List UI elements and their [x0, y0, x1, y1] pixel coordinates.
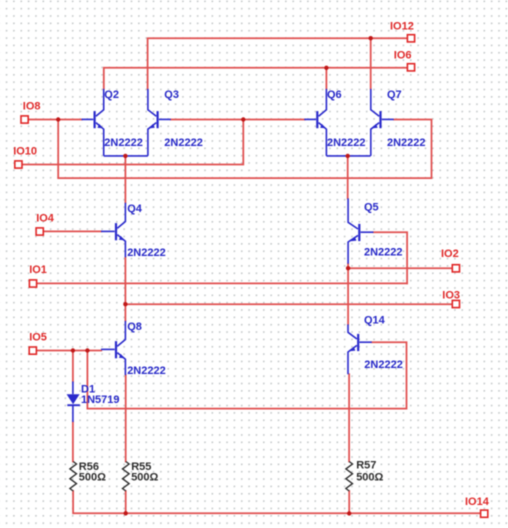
wire IO5 node down, across, up to Q14 base	[87, 342, 406, 408]
resistor R56	[70, 462, 77, 491]
svg-text:Q4: Q4	[127, 203, 143, 215]
wire Q5 base loop right and down to IO1 net	[373, 232, 407, 283]
svg-text:1N5719: 1N5719	[81, 394, 120, 406]
svg-text:Q2: Q2	[104, 89, 119, 101]
junction R57 on bottom rail	[347, 511, 351, 515]
IO6 pad	[407, 64, 414, 71]
wire IO5 node down to D1 anode	[72, 351, 74, 382]
svg-text:IO3: IO3	[442, 290, 460, 302]
IO1 pad	[29, 280, 36, 287]
IO3 pad	[452, 300, 459, 307]
junction Q6 collector on IO6 rail	[324, 66, 328, 70]
wire D1 cathode to R56	[72, 422, 74, 462]
svg-text:R57: R57	[356, 460, 376, 472]
svg-text:2N2222: 2N2222	[387, 137, 426, 149]
IO8 pad	[21, 116, 28, 123]
wire IO1 pad across	[37, 282, 407, 284]
wire Q2 emitter to Q3 emitter join	[104, 155, 148, 157]
junction Q6/Q7 emitter node	[346, 154, 350, 158]
svg-text:IO5: IO5	[29, 332, 47, 344]
IO2 pad	[452, 265, 459, 272]
svg-text:IO12: IO12	[390, 21, 414, 33]
junction R55 on bottom rail	[124, 511, 128, 515]
svg-text:500Ω: 500Ω	[79, 472, 106, 484]
svg-text:Q14: Q14	[364, 315, 386, 327]
svg-text:IO8: IO8	[23, 100, 41, 112]
wire Q6 collector drop to IO6 rail	[325, 68, 327, 89]
junction D1 branch on IO5 wire	[71, 348, 75, 352]
transistor Q4	[101, 203, 125, 257]
wire net IO6: Q2 collector up and across to IO6 pad	[104, 68, 408, 89]
IO12 pad	[407, 35, 414, 42]
IO10 pad	[15, 161, 22, 168]
svg-text:Q5: Q5	[364, 202, 379, 214]
svg-text:IO4: IO4	[36, 213, 55, 225]
transistor Q14	[348, 324, 372, 374]
wire Q5 emitter node to IO2 pad	[348, 267, 453, 269]
transistor Q6	[304, 89, 326, 156]
wire IO10 pad across and up to Q3/Q6 base net	[23, 120, 244, 165]
svg-text:2N2222: 2N2222	[104, 137, 143, 149]
transistor Q7	[371, 89, 394, 156]
svg-text:2N2222: 2N2222	[364, 247, 403, 259]
wire Q14 emitter down to R57	[348, 374, 350, 461]
wire R56 to bottom rail and rail to IO14 pad	[73, 491, 481, 513]
transistor Q2	[82, 89, 104, 156]
wire Q2/Q3 emitters down to Q4 collector	[124, 156, 126, 203]
svg-text:Q6: Q6	[327, 89, 342, 101]
wire Q4/Q8 node to IO3 pad	[125, 303, 452, 305]
transistor Q5	[348, 198, 373, 263]
diode D1	[67, 382, 80, 423]
svg-text:500Ω: 500Ω	[356, 472, 383, 484]
wire Q4 emitter to Q8 collector	[124, 257, 126, 321]
svg-text:2N2222: 2N2222	[127, 247, 166, 259]
svg-text:2N2222: 2N2222	[164, 137, 203, 149]
svg-text:IO1: IO1	[29, 264, 47, 276]
wire IO8 pad to Q2 base	[29, 119, 82, 121]
wire Q5 emitter down to Q14 collector	[347, 264, 349, 325]
wire IO8 down, across, up to Q7 base	[58, 120, 431, 179]
svg-text:IO14: IO14	[465, 496, 490, 508]
IO14 pad	[481, 510, 488, 517]
wire Q8 emitter down to R55	[125, 375, 127, 461]
junction Q14 loop branch on IO5 wire	[85, 348, 89, 352]
junction IO2 branch	[346, 266, 350, 270]
wire net IO12: Q3 collector up and across to IO12 pad	[148, 38, 408, 89]
transistor Q8	[101, 321, 125, 375]
wire Q6 emitter to Q7 emitter join	[326, 155, 370, 157]
junction IO8/Q7 drop	[56, 117, 60, 121]
IO5 pad	[29, 347, 36, 354]
resistor R55	[123, 462, 130, 491]
svg-text:2N2222: 2N2222	[364, 359, 403, 371]
IO4 pad	[36, 228, 43, 235]
wire R57 to bottom rail	[348, 491, 350, 513]
svg-text:2N2222: 2N2222	[127, 365, 166, 377]
resistor R57	[346, 462, 353, 491]
svg-text:IO2: IO2	[441, 248, 459, 260]
junction Q7 collector on IO12 rail	[369, 36, 373, 40]
svg-text:500Ω: 500Ω	[131, 472, 158, 484]
svg-text:IO10: IO10	[13, 146, 37, 158]
wire Q3 base to Q6 base	[171, 119, 305, 121]
junction IO10 riser on base net	[241, 117, 245, 121]
wire Q7 collector drop to IO12 rail	[370, 38, 372, 89]
svg-text:IO6: IO6	[394, 50, 412, 62]
svg-text:2N2222: 2N2222	[327, 137, 366, 149]
wire Q6/Q7 emitters down to Q5 collector	[347, 156, 349, 199]
svg-text:Q8: Q8	[127, 321, 142, 333]
transistor Q3	[148, 89, 171, 156]
svg-text:Q3: Q3	[164, 89, 179, 101]
wire IO5 pad to Q8 base	[37, 350, 101, 352]
junction Q2/Q3 emitter node	[123, 154, 127, 158]
svg-text:Q7: Q7	[387, 89, 402, 101]
wire R55 to bottom rail	[125, 491, 127, 513]
junction IO3 branch	[123, 302, 127, 306]
wire IO4 pad to Q4 base	[44, 230, 101, 232]
